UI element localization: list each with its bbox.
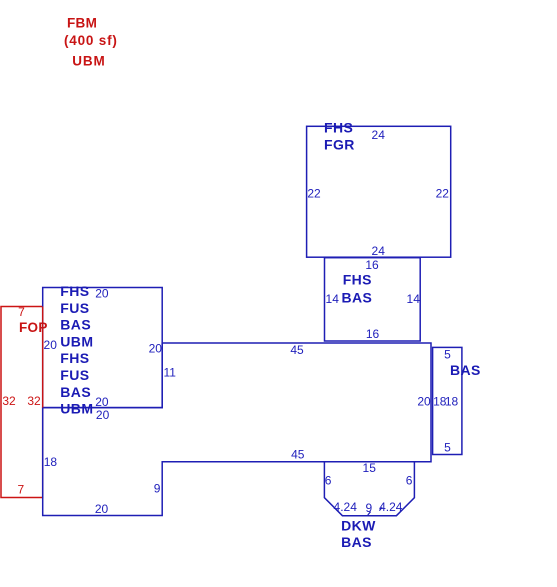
svg-text:FHS: FHS	[324, 119, 353, 135]
svg-text:11: 11	[164, 366, 177, 380]
svg-text:20: 20	[417, 395, 431, 409]
svg-text:FUS: FUS	[60, 300, 89, 316]
svg-text:UBM: UBM	[60, 333, 93, 349]
room BAS outline (right small)	[433, 347, 462, 454]
svg-text:20: 20	[149, 342, 163, 356]
svg-text:7: 7	[18, 305, 25, 319]
svg-text:15: 15	[363, 461, 377, 475]
svg-text:16: 16	[366, 327, 380, 341]
svg-text:24: 24	[372, 244, 386, 258]
svg-text:FHS: FHS	[60, 283, 89, 299]
svg-text:20: 20	[95, 502, 109, 516]
svg-text:7: 7	[18, 482, 25, 496]
room FHS/FGR outline (top-right)	[307, 126, 451, 257]
tick mark left chamfer dimension	[379, 507, 382, 510]
svg-text:20: 20	[95, 287, 109, 301]
svg-text:FGR: FGR	[324, 137, 355, 153]
main floor polygon outline	[43, 343, 431, 516]
svg-text:FHS: FHS	[60, 350, 89, 366]
svg-text:FUS: FUS	[60, 367, 89, 383]
room upper-left outline	[43, 288, 163, 408]
svg-text:20: 20	[96, 408, 110, 422]
label stack upper-left room	[60, 283, 93, 417]
svg-text:BAS: BAS	[450, 362, 481, 378]
svg-text:6: 6	[406, 473, 413, 487]
svg-text:5: 5	[444, 348, 451, 362]
svg-text:32: 32	[2, 394, 16, 408]
svg-text:UBM: UBM	[72, 54, 105, 69]
svg-text:BAS: BAS	[60, 317, 91, 333]
svg-text:14: 14	[407, 292, 421, 306]
svg-text:4.24: 4.24	[334, 500, 358, 514]
svg-text:14: 14	[326, 292, 340, 306]
svg-text:18: 18	[44, 455, 58, 469]
svg-text:45: 45	[290, 343, 304, 357]
svg-text:5: 5	[444, 441, 451, 455]
svg-text:20: 20	[44, 338, 58, 352]
svg-text:32: 32	[27, 394, 41, 408]
svg-text:22: 22	[307, 186, 321, 200]
svg-text:24: 24	[372, 128, 386, 142]
room DKW/BAS outline (bottom bay)	[324, 462, 414, 516]
svg-text:45: 45	[291, 448, 305, 462]
svg-text:9: 9	[154, 482, 161, 496]
svg-text:UBM: UBM	[60, 401, 93, 417]
svg-text:22: 22	[436, 186, 450, 200]
svg-text:BAS: BAS	[341, 534, 372, 550]
svg-text:FBM: FBM	[67, 16, 97, 31]
svg-text:BAS: BAS	[342, 290, 373, 306]
svg-text:6: 6	[325, 473, 332, 487]
red FOP right edge overlap segment	[42, 307, 44, 408]
svg-text:20: 20	[95, 395, 109, 409]
svg-text:DKW: DKW	[341, 518, 376, 534]
tick mark bottom dimension	[368, 512, 371, 515]
red area FOP outline	[1, 307, 43, 498]
svg-text:18: 18	[445, 395, 459, 409]
svg-text:16: 16	[365, 258, 379, 272]
svg-text:BAS: BAS	[60, 384, 91, 400]
svg-text:FHS: FHS	[343, 272, 372, 288]
svg-text:(400 sf): (400 sf)	[64, 33, 118, 48]
svg-text:4.24: 4.24	[379, 500, 403, 514]
room FHS/BAS outline (middle)	[325, 258, 421, 341]
